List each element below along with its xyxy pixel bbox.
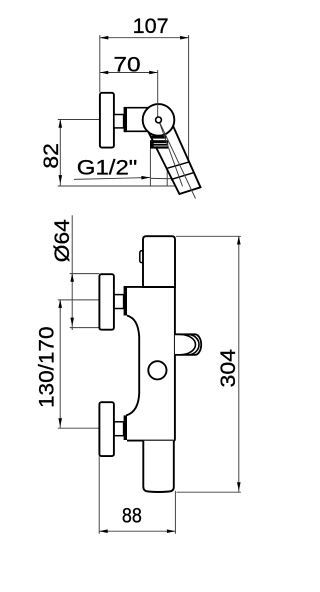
svg-text:82: 82 [39, 143, 63, 169]
svg-text:304: 304 [216, 349, 240, 388]
svg-text:70: 70 [113, 53, 140, 77]
svg-text:G1/2": G1/2" [77, 156, 138, 180]
svg-text:88: 88 [122, 504, 142, 528]
svg-text:Ø64: Ø64 [50, 219, 74, 262]
svg-text:130/170: 130/170 [35, 326, 59, 408]
svg-text:107: 107 [133, 14, 169, 38]
